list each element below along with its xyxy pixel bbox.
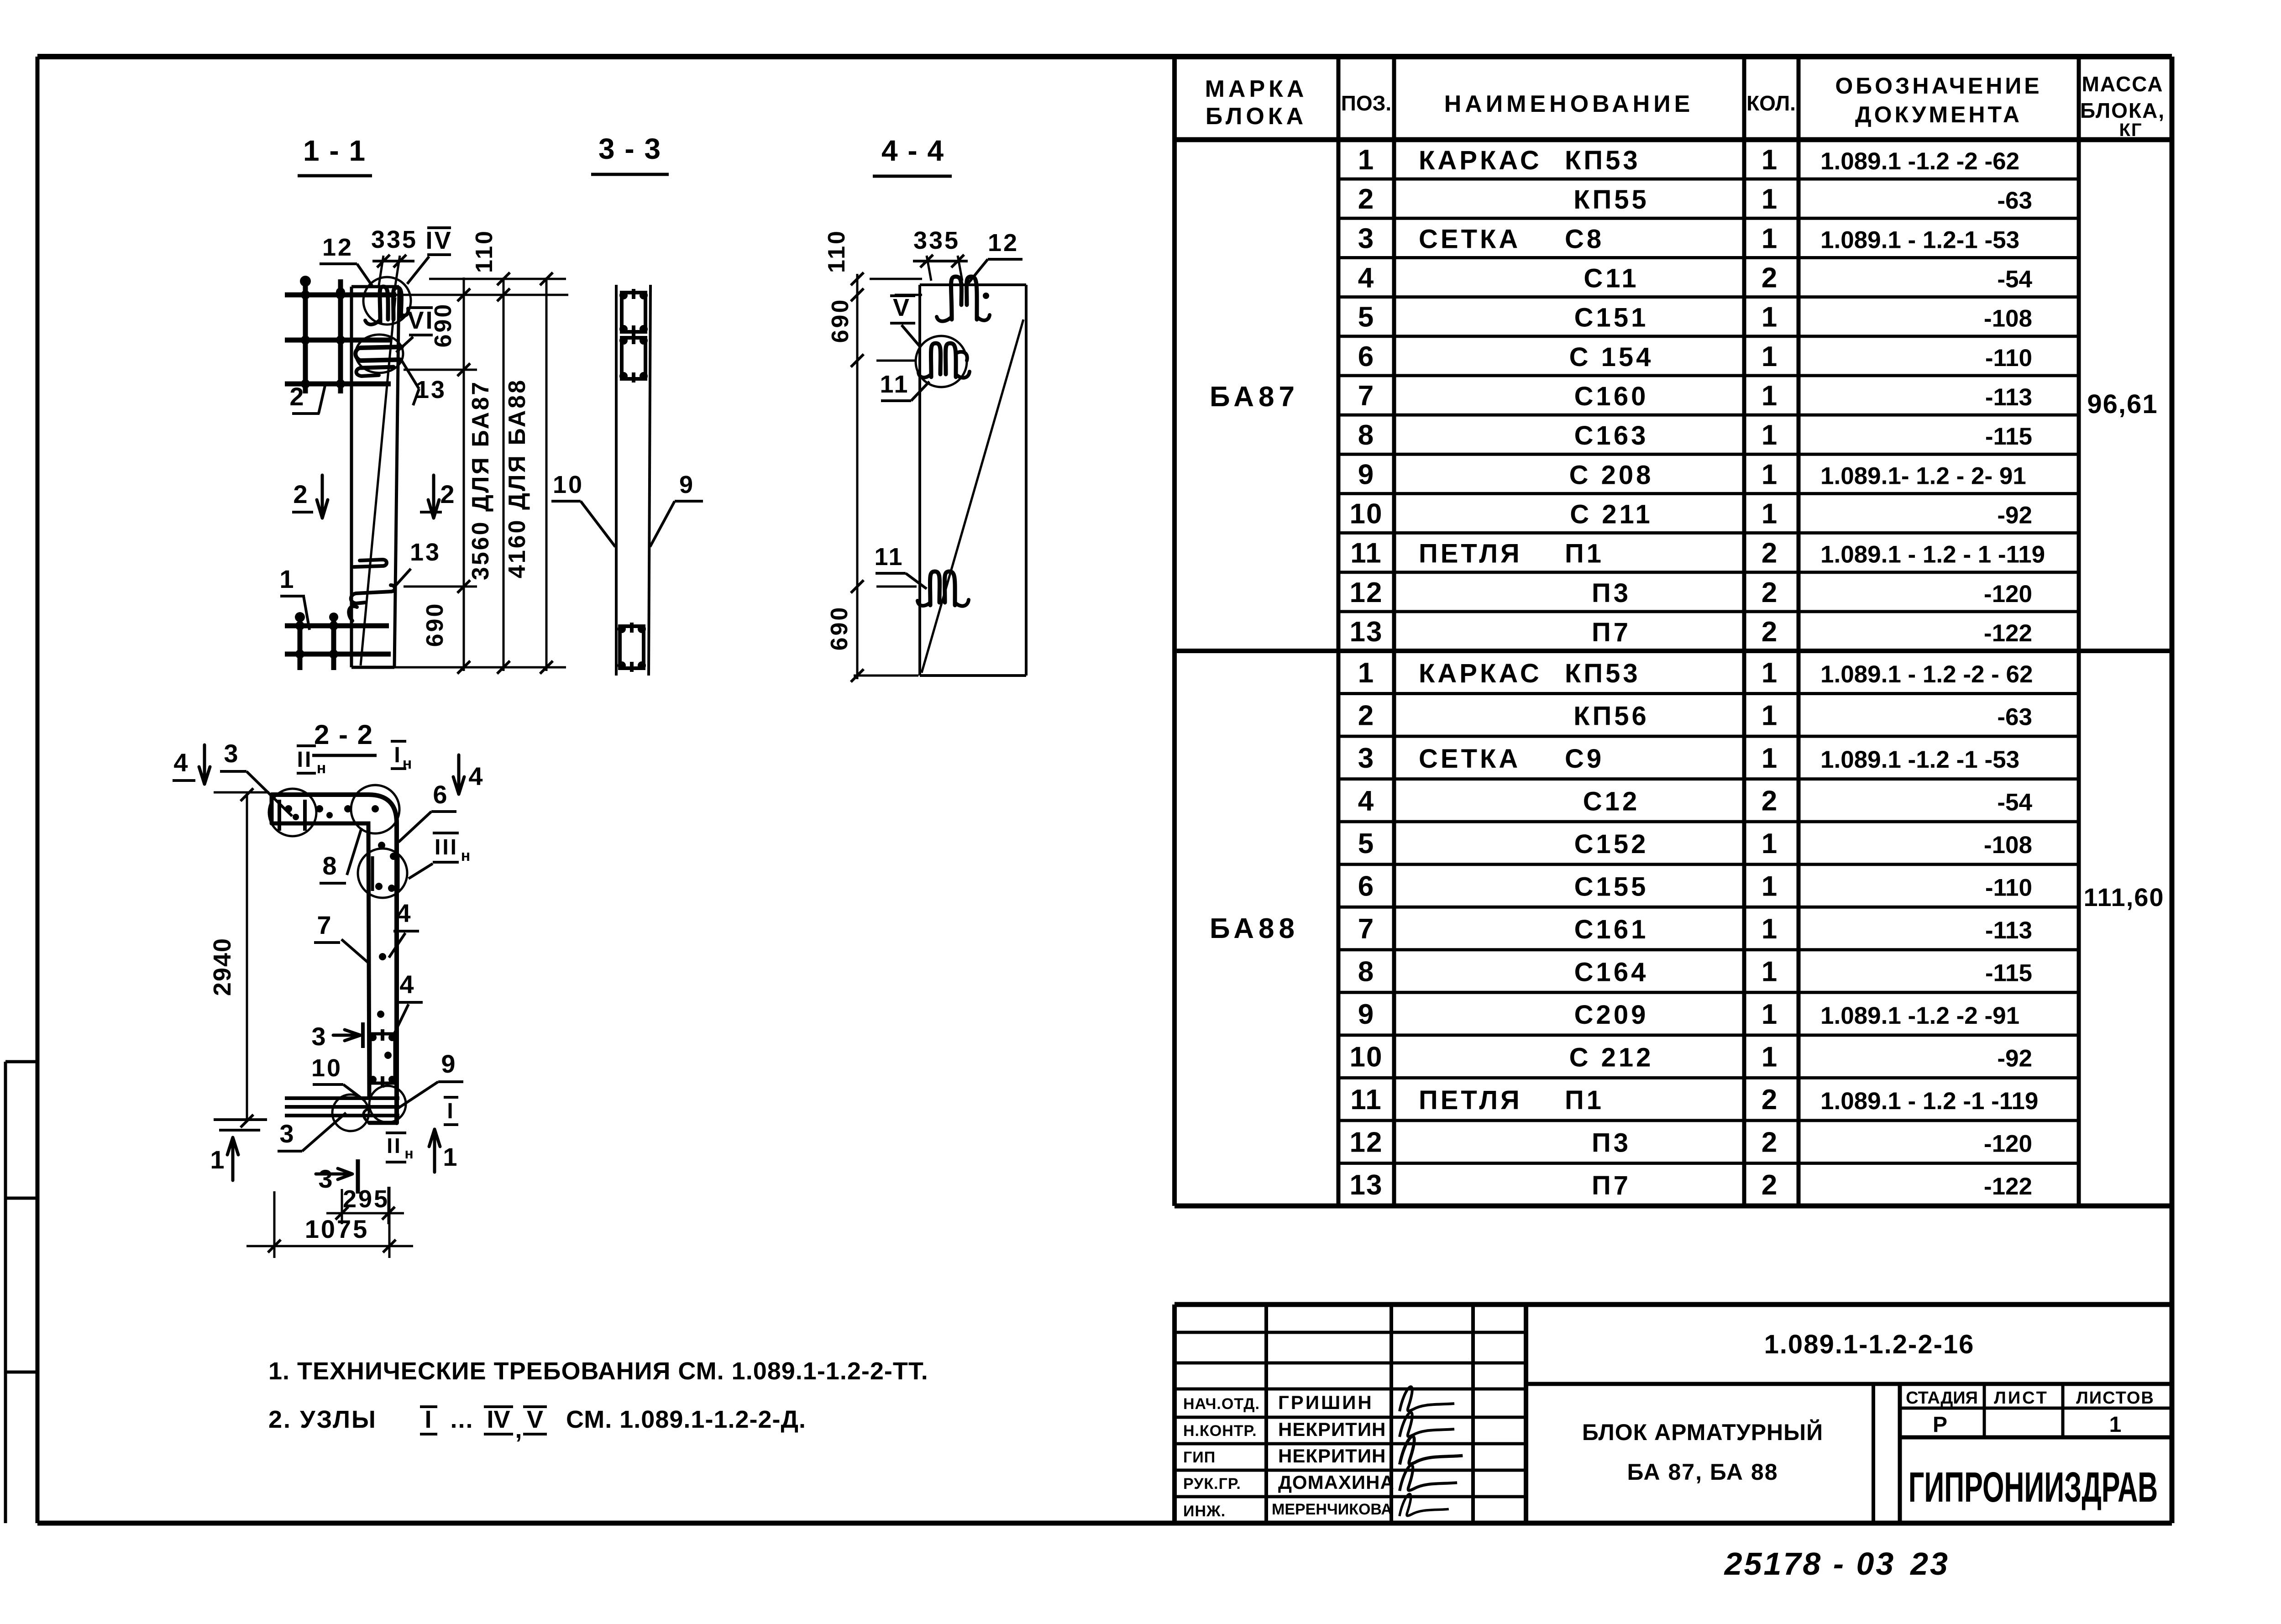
svg-text:1.089.1 -1.2 -2 -91: 1.089.1 -1.2 -2 -91 [1820,1002,2019,1029]
svg-text:4 - 4: 4 - 4 [881,134,944,167]
svg-text:25178 - 03: 25178 - 03 [1724,1546,1896,1582]
svg-text:2. УЗЛЫ: 2. УЗЛЫ [268,1406,377,1433]
svg-text:8: 8 [1358,956,1374,988]
svg-text:П1: П1 [1565,1085,1604,1115]
svg-text:НАИМЕНОВАНИЕ: НАИМЕНОВАНИЕ [1444,91,1694,117]
svg-text:10: 10 [553,471,584,498]
svg-text:С152: С152 [1574,829,1649,859]
svg-text:КОЛ.: КОЛ. [1746,91,1796,115]
svg-text:ЛИСТОВ: ЛИСТОВ [2076,1388,2155,1408]
svg-text:2: 2 [1762,616,1779,648]
svg-text:П7: П7 [1592,1171,1631,1200]
svg-text:С 211: С 211 [1570,499,1653,529]
svg-text:II: II [387,1134,402,1158]
svg-text:С161: С161 [1574,915,1649,944]
svg-text:БА88: БА88 [1210,913,1299,944]
svg-text:БЛОКА,: БЛОКА, [2080,99,2165,122]
svg-text:3: 3 [224,739,240,768]
svg-text:СМ. 1.089.1-1.2-2-Д.: СМ. 1.089.1-1.2-2-Д. [566,1406,806,1433]
svg-text:1: 1 [2109,1413,2124,1437]
svg-text:690: 690 [827,298,854,343]
svg-text:СТАДИЯ: СТАДИЯ [1906,1388,1978,1408]
svg-text:1: 1 [1762,341,1779,372]
svg-text:ИНЖ.: ИНЖ. [1183,1503,1226,1520]
svg-text:2: 2 [1762,262,1779,294]
svg-text:ГИПРОНИИЗДРАВ: ГИПРОНИИЗДРАВ [1909,1463,2158,1511]
svg-text:690: 690 [430,303,456,348]
svg-text:КАРКАС: КАРКАС [1419,146,1542,175]
svg-text:690: 690 [422,602,448,647]
svg-text:-120: -120 [1984,1131,2032,1158]
svg-text:С12: С12 [1583,786,1640,816]
svg-text:-92: -92 [1997,1045,2032,1072]
svg-text:1: 1 [1762,144,1779,176]
svg-text:-122: -122 [1984,620,2032,647]
svg-text:-108: -108 [1984,832,2032,859]
svg-text:БЛОКА: БЛОКА [1206,103,1307,130]
svg-text:С8: С8 [1565,224,1604,254]
svg-text:ГИП: ГИП [1183,1449,1216,1466]
svg-text:1: 1 [443,1142,459,1171]
svg-text:9: 9 [441,1049,457,1078]
svg-text:МЕРЕНЧИКОВА: МЕРЕНЧИКОВА [1272,1501,1392,1518]
svg-text:С151: С151 [1574,303,1649,333]
svg-text:10: 10 [1350,1042,1383,1073]
svg-text:3: 3 [318,1164,334,1193]
svg-text:КАРКАС: КАРКАС [1419,659,1542,688]
svg-text:12: 12 [988,229,1019,257]
svg-text:П3: П3 [1592,578,1631,608]
svg-text:1: 1 [1762,459,1779,490]
svg-text:НЕКРИТИН: НЕКРИТИН [1278,1445,1386,1467]
svg-text:3560 ДЛЯ БА87: 3560 ДЛЯ БА87 [467,380,494,580]
svg-text:5: 5 [1358,302,1374,333]
svg-text:13: 13 [410,539,441,566]
svg-text:2940: 2940 [209,938,236,996]
svg-text:3: 3 [1358,743,1374,774]
svg-text:13: 13 [1350,1169,1383,1201]
svg-text:С11: С11 [1584,264,1639,293]
svg-text:6: 6 [1358,341,1374,372]
svg-text:2: 2 [1762,1169,1779,1201]
svg-text:1: 1 [1762,657,1779,689]
svg-text:3: 3 [1358,223,1374,254]
svg-text:,: , [515,1416,522,1443]
svg-text:3 - 3: 3 - 3 [598,132,661,165]
svg-text:ПОЗ.: ПОЗ. [1341,91,1391,115]
svg-text:ОБОЗНАЧЕНИЕ: ОБОЗНАЧЕНИЕ [1835,73,2042,99]
svg-text:МАССА: МАССА [2082,72,2164,96]
svg-text:12: 12 [1350,1127,1383,1158]
svg-text:1.089.1 - 1.2-1 -53: 1.089.1 - 1.2-1 -53 [1820,226,2019,253]
svg-text:н: н [404,1145,415,1162]
svg-text:-110: -110 [1985,874,2032,901]
svg-text:1: 1 [1762,498,1779,529]
svg-text:2: 2 [1358,183,1374,215]
svg-text:1: 1 [1762,999,1779,1030]
svg-text:9: 9 [679,471,695,498]
svg-text:1: 1 [279,565,295,593]
svg-text:С 212: С 212 [1569,1043,1654,1073]
svg-text:С209: С209 [1574,1000,1649,1030]
svg-text:1.089.1 - 1.2 -1 -119: 1.089.1 - 1.2 -1 -119 [1820,1088,2038,1115]
svg-text:2: 2 [440,480,456,508]
svg-text:1: 1 [1762,828,1779,859]
svg-text:10: 10 [1350,498,1383,529]
svg-text:С9: С9 [1565,744,1604,774]
svg-text:IV: IV [487,1406,510,1433]
svg-text:ДОКУМЕНТА: ДОКУМЕНТА [1855,102,2022,127]
svg-text:III: III [435,835,458,859]
svg-text:11: 11 [874,543,904,571]
svg-text:4: 4 [173,748,189,777]
svg-text:4: 4 [399,970,415,999]
svg-text:2: 2 [1762,1084,1779,1116]
svg-text:КП56: КП56 [1573,701,1649,731]
svg-text:ДОМАХИНА: ДОМАХИНА [1278,1472,1395,1493]
svg-text:2: 2 [1358,700,1374,731]
svg-text:НАЧ.ОТД.: НАЧ.ОТД. [1183,1395,1260,1413]
svg-text:1: 1 [1762,700,1779,731]
svg-text:2: 2 [1762,538,1779,569]
svg-text:9: 9 [1358,999,1374,1030]
svg-text:690: 690 [826,606,853,651]
svg-text:1: 1 [1762,223,1779,254]
svg-text:П7: П7 [1592,618,1631,647]
svg-text:I: I [394,743,402,767]
svg-text:12: 12 [322,234,353,261]
svg-text:V: V [527,1406,543,1433]
svg-text:11: 11 [1350,538,1382,569]
svg-text:-115: -115 [1985,960,2032,987]
svg-text:2: 2 [293,480,309,508]
svg-text:С 154: С 154 [1569,342,1654,372]
svg-text:5: 5 [1358,828,1374,859]
svg-text:7: 7 [1358,913,1374,945]
svg-text:11: 11 [880,371,909,398]
svg-text:1: 1 [1762,743,1779,774]
svg-text:-54: -54 [1997,266,2032,293]
svg-text:2 - 2: 2 - 2 [314,719,373,750]
svg-text:1: 1 [1762,870,1779,902]
svg-text:Н.КОНТР.: Н.КОНТР. [1183,1422,1257,1440]
svg-text:4: 4 [396,899,412,927]
svg-text:1 - 1: 1 - 1 [303,134,366,167]
svg-text:1: 1 [210,1145,226,1174]
svg-text:КГ: КГ [2119,120,2142,140]
svg-text:С163: С163 [1574,421,1649,451]
svg-text:3: 3 [279,1119,295,1148]
svg-text:...: ... [450,1406,473,1433]
svg-text:-108: -108 [1984,305,2032,332]
svg-text:-110: -110 [1985,345,2032,372]
svg-text:4: 4 [468,762,484,791]
svg-text:1.089.1- 1.2 - 2- 91: 1.089.1- 1.2 - 2- 91 [1820,462,2026,489]
svg-text:НЕКРИТИН: НЕКРИТИН [1278,1419,1386,1440]
svg-text:I: I [425,1406,431,1433]
svg-text:8: 8 [322,851,338,880]
svg-text:1075: 1075 [305,1215,369,1243]
svg-text:1: 1 [1762,380,1779,412]
svg-text:1: 1 [1358,144,1374,176]
svg-text:7: 7 [317,911,333,939]
svg-text:7: 7 [1358,380,1374,412]
svg-text:335: 335 [913,227,960,254]
svg-text:2: 2 [289,382,305,411]
svg-text:1. ТЕХНИЧЕСКИЕ ТРЕБОВАНИЯ СМ: 1. ТЕХНИЧЕСКИЕ ТРЕБОВАНИЯ СМ. 1.089.1-1.… [268,1357,928,1385]
svg-text:1.089.1 -1.2 -2 -62: 1.089.1 -1.2 -2 -62 [1820,148,2019,175]
svg-text:96,61: 96,61 [2087,389,2158,419]
svg-text:СЕТКА: СЕТКА [1419,224,1521,254]
svg-text:9: 9 [1358,459,1374,490]
svg-text:-113: -113 [1985,384,2032,411]
svg-text:II: II [297,748,313,772]
svg-text:БЛОК АРМАТУРНЫЙ: БЛОК АРМАТУРНЫЙ [1582,1419,1823,1445]
svg-text:1: 1 [1762,419,1779,451]
svg-text:13: 13 [1350,616,1383,648]
svg-text:8: 8 [1358,419,1374,451]
svg-text:-113: -113 [1985,917,2032,944]
svg-text:10: 10 [311,1054,342,1082]
svg-text:IV: IV [425,227,452,254]
svg-text:С164: С164 [1574,958,1649,987]
svg-text:-54: -54 [1997,789,2032,816]
svg-text:С155: С155 [1574,872,1649,901]
svg-text:н: н [461,847,472,864]
svg-text:1.089.1-1.2-2-16: 1.089.1-1.2-2-16 [1764,1330,1975,1359]
svg-text:-63: -63 [1997,703,2032,730]
svg-text:2: 2 [1762,785,1779,817]
svg-text:1: 1 [1358,657,1374,689]
svg-text:2: 2 [1762,1127,1779,1158]
svg-text:335: 335 [371,226,418,253]
svg-text:I: I [447,1099,455,1123]
svg-text:110: 110 [471,229,498,273]
svg-text:1: 1 [1762,1042,1779,1073]
svg-text:-122: -122 [1984,1173,2032,1200]
svg-text:1.089.1 - 1.2 -2 - 62: 1.089.1 - 1.2 -2 - 62 [1820,661,2033,688]
svg-text:С160: С160 [1574,382,1649,411]
svg-text:СЕТКА: СЕТКА [1419,744,1521,774]
svg-text:ПЕТЛЯ: ПЕТЛЯ [1419,539,1522,569]
svg-text:н: н [317,760,328,777]
svg-text:3: 3 [311,1022,327,1051]
svg-text:6: 6 [433,780,449,809]
svg-text:4160 ДЛЯ БА88: 4160 ДЛЯ БА88 [504,378,530,578]
svg-text:П3: П3 [1592,1128,1631,1158]
svg-text:12: 12 [1350,577,1383,608]
svg-text:ГРИШИН: ГРИШИН [1278,1392,1374,1413]
svg-text:КП55: КП55 [1573,185,1649,215]
svg-text:2: 2 [1762,577,1779,608]
svg-text:1: 1 [1762,913,1779,945]
svg-text:4: 4 [1358,785,1374,817]
svg-text:П1: П1 [1565,539,1604,569]
svg-text:110: 110 [823,229,850,273]
svg-text:С 208: С 208 [1569,460,1654,490]
svg-text:МАРКА: МАРКА [1205,76,1308,102]
svg-text:23: 23 [1909,1546,1950,1582]
svg-text:РУК.ГР.: РУК.ГР. [1183,1475,1241,1493]
svg-text:1.089.1 -1.2 -1 -53: 1.089.1 -1.2 -1 -53 [1820,746,2019,773]
svg-text:-120: -120 [1984,581,2032,608]
svg-text:295: 295 [343,1185,389,1213]
svg-text:6: 6 [1358,870,1374,902]
svg-text:-63: -63 [1997,187,2032,214]
svg-text:111,60: 111,60 [2083,883,2164,912]
svg-text:1: 1 [1762,956,1779,988]
svg-text:-115: -115 [1985,423,2032,450]
svg-text:БА87: БА87 [1210,381,1299,413]
svg-text:1.089.1 - 1.2 - 1 -119: 1.089.1 - 1.2 - 1 -119 [1820,541,2045,568]
svg-text:БА 87, БА 88: БА 87, БА 88 [1627,1459,1778,1485]
svg-text:1: 1 [1762,183,1779,215]
svg-text:4: 4 [1358,262,1374,294]
svg-text:1: 1 [1762,302,1779,333]
svg-text:-92: -92 [1997,502,2032,529]
svg-text:11: 11 [1350,1084,1382,1116]
svg-text:ЛИСТ: ЛИСТ [1994,1388,2049,1408]
svg-text:КП53: КП53 [1565,659,1641,688]
svg-text:V: V [893,294,911,321]
svg-text:КП53: КП53 [1565,146,1641,175]
svg-text:Р: Р [1933,1413,1949,1437]
svg-text:ПЕТЛЯ: ПЕТЛЯ [1419,1085,1522,1115]
